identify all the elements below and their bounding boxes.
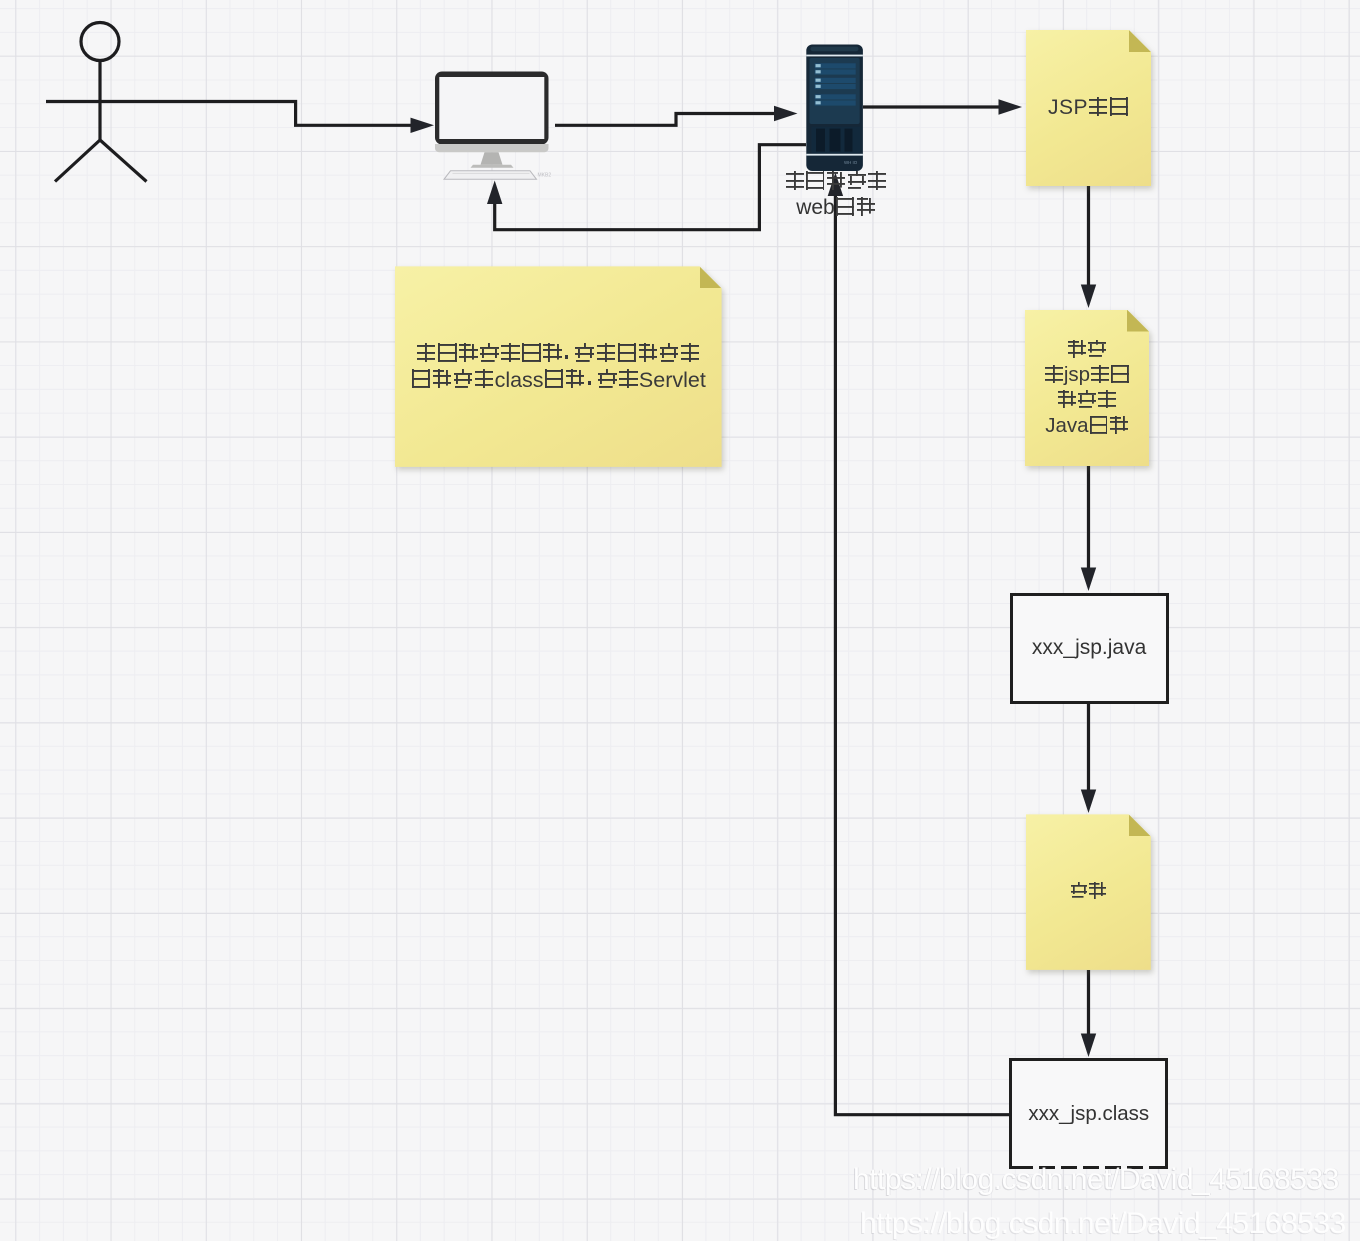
arrowhead A3 into JSP note <box>999 99 1023 114</box>
watermark clipped bottom row <box>860 1207 1346 1241</box>
note: JSP page <box>1026 30 1151 186</box>
box: xxx_jsp.class <box>1009 1058 1168 1169</box>
wire W1: user to monitor <box>155 102 412 126</box>
note: convert jsp to java <box>1025 310 1149 467</box>
wire W5: convert note down <box>1087 466 1090 568</box>
watermark main row <box>853 1163 1339 1197</box>
wire W7: compile note down <box>1087 970 1090 1035</box>
arrowhead A7 into class box <box>1081 1034 1096 1058</box>
wire W2: monitor to server <box>555 114 775 126</box>
big yellow annotation note <box>395 266 722 467</box>
svg-text:MKB2: MKB2 <box>538 173 552 179</box>
svg-text:WH IO: WH IO <box>844 160 858 165</box>
wire W8: class box back to server <box>835 196 1009 1115</box>
note: compile <box>1026 814 1151 970</box>
wire W4: JSP note down <box>1087 186 1090 285</box>
arrowhead A6 into compile note <box>1081 790 1096 814</box>
arrowhead A8 into server bottom <box>828 173 843 197</box>
arrowhead A4 into convert note <box>1081 285 1096 309</box>
keyboard under monitor <box>444 171 537 180</box>
arrowhead A5 into java box <box>1081 568 1096 592</box>
wire W3: server to JSP note <box>863 105 999 108</box>
arrowhead A2 into server <box>774 106 798 121</box>
wire W9: server response to user monitor <box>495 145 806 230</box>
wire W6: java box down <box>1087 704 1090 790</box>
caption: server has web container <box>756 169 916 221</box>
actor: stick figure user <box>46 23 155 182</box>
arrowhead A1 into monitor <box>411 118 435 133</box>
monitor body <box>435 72 551 180</box>
box: xxx_jsp.java <box>1010 593 1169 705</box>
server tower <box>806 45 863 172</box>
arrowhead A9 into monitor keyboard <box>487 181 502 205</box>
